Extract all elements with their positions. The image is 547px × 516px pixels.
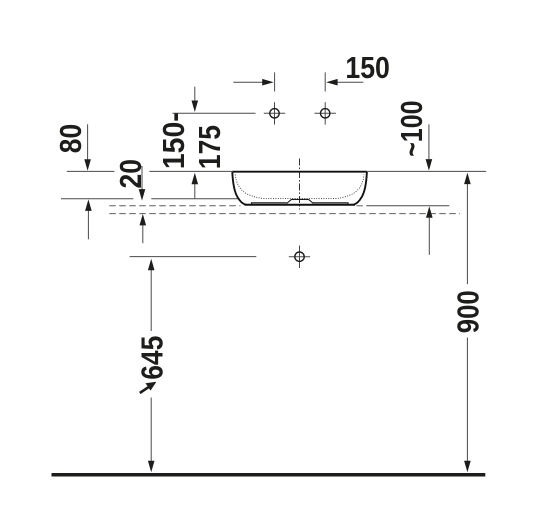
svg-text:20: 20 [114, 159, 148, 188]
dashed line upper left [109, 205, 240, 207]
dimension 150 tick right [324, 72, 326, 91]
svg-text:150: 150 [345, 51, 390, 85]
floor line [52, 473, 486, 477]
svg-text:150-: 150- [157, 112, 191, 169]
dashed line upper right stub [357, 205, 363, 207]
900 bottom arrowhead [464, 461, 471, 473]
basin drain recess [287, 199, 314, 203]
645 extension line [130, 256, 257, 258]
900 top arrowhead [464, 173, 471, 185]
rim level line right segment [367, 170, 486, 172]
drain hole circle [289, 246, 310, 269]
dimension 150-175 lower arrow (up) [192, 173, 199, 199]
basin bottom line [245, 204, 356, 206]
dimension ~100 lower arrow (up) [426, 206, 433, 255]
645 top arrowhead [148, 259, 155, 271]
dimension 150 tick left [274, 72, 276, 91]
svg-text:645: 645 [135, 336, 169, 380]
svg-text:80: 80 [54, 124, 88, 153]
counter top line right segment [151, 198, 239, 200]
dimension 645 line lower segment [150, 398, 152, 462]
basin foot line right [313, 203, 348, 205]
dimension 900 line lower segment [466, 338, 468, 462]
extension line right solid [366, 205, 449, 207]
basin centerline [299, 159, 301, 210]
dimension 150 left arrow [233, 79, 273, 86]
faucet hole circle left [264, 102, 285, 124]
svg-text:175: 175 [193, 125, 227, 169]
dimension 900 line upper segment [466, 184, 468, 285]
645 slanted min-arrow symbol [140, 382, 157, 393]
rim level line mid segment [149, 170, 232, 172]
dashed line lower [109, 213, 460, 215]
basin foot line left [252, 203, 287, 205]
faucet level extension line [173, 112, 256, 114]
rim level line left segment [67, 170, 115, 172]
basin inner contour dotted [235, 175, 364, 199]
dimension 150 right arrow [326, 79, 363, 86]
faucet hole circle right [315, 102, 336, 124]
basin rim top line [232, 171, 367, 173]
dimension 645 line upper segment [150, 270, 152, 331]
dimension 80 arrow (down) [84, 124, 91, 171]
20 group lower arrow (up) [140, 214, 147, 243]
basin outer wall right [354, 172, 367, 205]
counter top line left segment [61, 198, 133, 200]
dimension 20 arrow (down) [139, 166, 146, 201]
svg-text:~100: ~100 [395, 101, 429, 157]
80 group lower arrow (up) [85, 199, 92, 239]
basin outer wall left [232, 172, 245, 205]
dimension ~100 upper arrow (down) [426, 124, 433, 170]
645 bottom arrowhead [148, 461, 155, 473]
dimension 150-175 upper arrow (down) [192, 87, 199, 112]
svg-text:900: 900 [452, 290, 486, 333]
